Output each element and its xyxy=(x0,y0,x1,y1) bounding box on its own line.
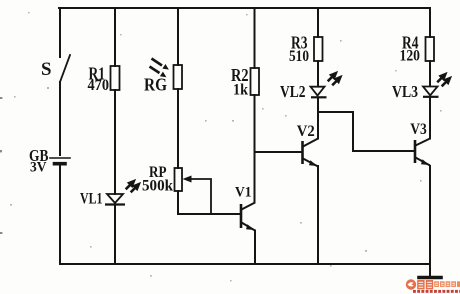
wire bottom rail xyxy=(60,263,428,265)
transistor V2 xyxy=(303,139,319,167)
wire branch R2 top xyxy=(254,8,256,68)
svg-text:VL2: VL2 xyxy=(280,82,306,101)
watermark logo circle xyxy=(406,279,416,289)
watermark text 电子市场网 xyxy=(434,281,460,287)
svg-text:3V: 3V xyxy=(30,160,47,176)
LED VL2 xyxy=(311,73,342,98)
potentiometer RP xyxy=(175,168,183,191)
wire V1 emitter to bottom rail xyxy=(254,231,256,265)
ground xyxy=(419,276,441,280)
resistor R3 xyxy=(314,37,323,61)
wire R3 to VL2 xyxy=(317,61,319,87)
wire V3 emitter to ground xyxy=(429,166,431,277)
battery GB plate long xyxy=(50,157,70,159)
photoresistor RG xyxy=(174,65,183,89)
wire node to V2 base xyxy=(255,151,302,153)
resistor R4 xyxy=(426,37,435,61)
wire node to V3 base xyxy=(318,112,414,151)
battery GB plate short xyxy=(55,162,66,166)
svg-text:S: S xyxy=(41,59,52,80)
wire VL1 to bottom rail xyxy=(114,205,116,264)
wire R1 to VL1 xyxy=(114,90,116,194)
watermark small red text row xyxy=(413,290,460,293)
LED VL3 xyxy=(423,74,451,97)
svg-text:VL3: VL3 xyxy=(392,82,418,101)
wire V2 emitter to bottom rail xyxy=(317,166,319,264)
resistor R2 xyxy=(251,68,260,95)
svg-text:500k: 500k xyxy=(142,178,173,195)
wire top rail xyxy=(59,7,430,9)
svg-text:VL1: VL1 xyxy=(80,191,103,208)
wire RG to RP xyxy=(177,89,179,168)
wire RP wiper xyxy=(188,179,211,214)
svg-text:V3: V3 xyxy=(410,121,427,138)
potentiometer RP wiper arrowhead xyxy=(183,176,192,183)
wire branch R1 top xyxy=(114,8,116,66)
wire branch R3 top xyxy=(317,8,319,37)
svg-text:1k: 1k xyxy=(233,82,248,99)
wire RP to V1 base xyxy=(178,213,241,215)
svg-text:V2: V2 xyxy=(297,123,315,140)
wire VL3 to V3 collector node xyxy=(429,98,431,139)
transistor V1 xyxy=(241,203,255,231)
svg-text:V1: V1 xyxy=(235,185,252,201)
svg-text:RG: RG xyxy=(144,75,167,95)
wire switch to battery xyxy=(59,82,61,155)
svg-text:510: 510 xyxy=(289,48,309,65)
photoresistor RG light arrows xyxy=(150,59,163,74)
wire left branch upper xyxy=(59,8,61,57)
wire R4 to VL3 xyxy=(429,61,431,86)
wire R2 to V1 collector xyxy=(254,95,256,203)
watermark text 维库 xyxy=(417,280,433,289)
svg-text:470: 470 xyxy=(88,77,110,94)
wire branch R4 top xyxy=(429,8,431,37)
wire battery to bottom rail xyxy=(59,165,61,264)
wire VL2 to V2 collector node xyxy=(317,99,319,139)
wire branch RG top xyxy=(177,8,179,65)
resistor R1 xyxy=(111,66,120,90)
LED VL1 xyxy=(105,181,140,205)
transistor V3 xyxy=(415,139,430,166)
svg-text:120: 120 xyxy=(400,48,421,65)
switch S xyxy=(60,55,70,82)
wire RP bottom xyxy=(177,191,179,214)
